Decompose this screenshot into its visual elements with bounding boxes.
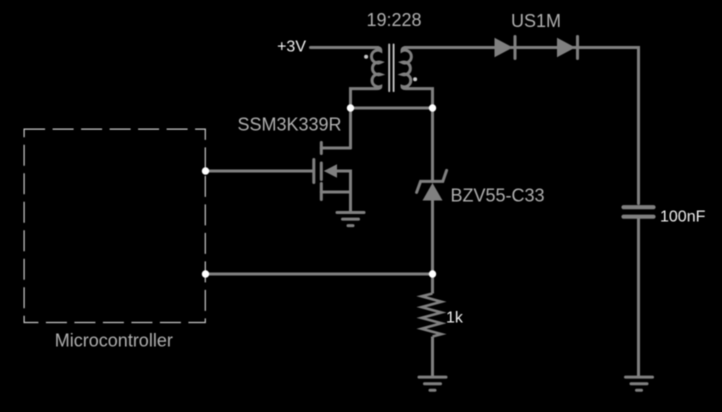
wire resistor to ground: [431, 337, 434, 378]
wire capacitor to ground: [637, 219, 640, 378]
wire microcontroller to node C: [206, 273, 433, 276]
wire node A to node B horizontal: [351, 107, 433, 110]
ground below resistor: [419, 377, 446, 390]
microcontroller pin dot upper: [202, 167, 209, 174]
svg-text:BZV55-C33: BZV55-C33: [451, 185, 545, 205]
transistor Q1 gate plate: [312, 160, 315, 183]
transformer secondary polarity dot: [413, 77, 417, 81]
capacitor C1 top plate: [624, 205, 654, 209]
wire transformer secondary top to diodes to cap: [405, 48, 639, 204]
transformer T1 secondary winding: [402, 48, 433, 182]
resistor R1 zigzag: [422, 294, 442, 337]
ground below transistor: [337, 213, 364, 226]
transformer primary polarity dot: [364, 55, 368, 59]
transistor Q1 channel bottom stub: [320, 184, 323, 200]
capacitor C1 bottom plate: [624, 215, 654, 219]
diode D1 cathode bar: [514, 37, 517, 59]
microcontroller pin dot lower: [202, 270, 209, 277]
transistor Q1 source wire: [321, 191, 350, 194]
node A junction dot: [347, 104, 354, 111]
svg-text:19:228: 19:228: [367, 10, 422, 30]
transistor Q1 channel top stub: [320, 143, 323, 154]
wire zener anode down through node C to resistor: [431, 201, 434, 294]
zener diode D3 cathode bar with bent ends: [417, 170, 447, 192]
wire gate from microcontroller: [206, 170, 314, 173]
svg-text:+3V: +3V: [277, 39, 306, 56]
zener diode D3 triangle (anode, pointing up): [423, 183, 443, 201]
transistor Q1 body arrow head: [324, 164, 337, 177]
microcontroller dashed box: [24, 129, 205, 322]
diode D2 cathode bar: [576, 37, 579, 59]
transformer T1 core: [389, 44, 393, 91]
node C junction dot: [429, 270, 436, 277]
ground below capacitor: [626, 377, 653, 390]
svg-text:100nF: 100nF: [660, 209, 706, 226]
svg-text:SSM3K339R: SSM3K339R: [238, 115, 342, 135]
transformer T1 primary winding: [351, 48, 381, 149]
diode D2 (US1M) triangle: [557, 38, 575, 58]
svg-text:1k: 1k: [446, 310, 464, 327]
transistor Q1 body arrow line: [332, 171, 351, 213]
transistor Q1 channel middle stub: [320, 163, 323, 180]
wire +3V to transformer primary: [311, 46, 379, 49]
svg-text:US1M: US1M: [511, 11, 561, 31]
transistor Q1 drain wire: [321, 147, 350, 150]
node B junction dot: [429, 104, 436, 111]
svg-text:Microcontroller: Microcontroller: [55, 330, 173, 350]
diode D1 (US1M) triangle: [495, 38, 513, 58]
